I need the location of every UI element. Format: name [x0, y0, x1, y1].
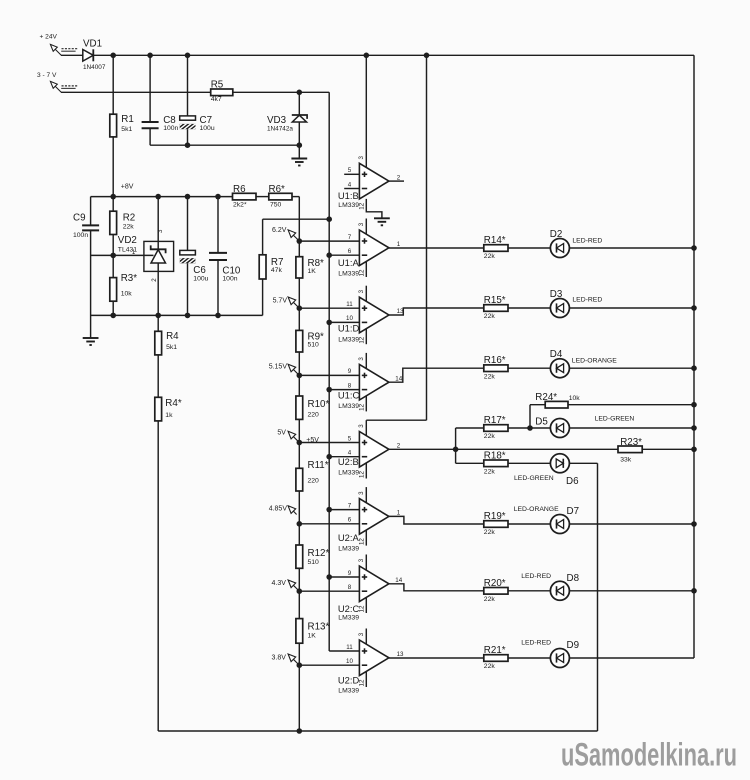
svg-text:R23*: R23* [620, 437, 642, 448]
svg-text:R4: R4 [166, 331, 179, 342]
svg-text:R5: R5 [211, 79, 224, 90]
svg-text:LED-GREEN: LED-GREEN [595, 416, 635, 423]
svg-text:6: 6 [348, 517, 352, 524]
svg-text:+ 24V: + 24V [40, 34, 58, 41]
svg-text:LM339: LM339 [338, 202, 359, 209]
svg-text:6: 6 [348, 248, 352, 255]
svg-text:R14*: R14* [484, 235, 506, 246]
svg-text:22k: 22k [484, 253, 496, 260]
svg-text:U2:C: U2:C [338, 603, 360, 614]
svg-text:D4: D4 [550, 349, 563, 360]
svg-text:33k: 33k [620, 456, 632, 463]
svg-text:1: 1 [397, 510, 401, 517]
svg-text:VD2: VD2 [118, 235, 137, 246]
svg-text:R9*: R9* [308, 331, 325, 342]
svg-text:R19*: R19* [484, 511, 506, 522]
svg-text:1: 1 [397, 241, 401, 248]
svg-text:22k: 22k [484, 529, 496, 536]
svg-text:5: 5 [348, 435, 352, 442]
svg-text:LED-ORANGE: LED-ORANGE [514, 506, 559, 513]
svg-text:LM339: LM339 [338, 687, 359, 694]
svg-text:12: 12 [359, 269, 366, 276]
svg-text:100n: 100n [73, 232, 88, 239]
svg-text:22k: 22k [484, 663, 496, 670]
svg-text:LM339: LM339 [338, 403, 359, 410]
svg-text:1k: 1k [165, 412, 173, 419]
svg-text:100u: 100u [193, 275, 208, 282]
svg-text:LED-RED: LED-RED [521, 640, 551, 647]
svg-text:+8V: +8V [121, 183, 134, 190]
svg-text:4.3V: 4.3V [271, 580, 286, 587]
svg-text:VD1: VD1 [83, 39, 102, 50]
svg-text:2k2*: 2k2* [233, 201, 247, 208]
svg-text:R3*: R3* [121, 273, 138, 284]
svg-text:LED-ORANGE: LED-ORANGE [572, 357, 617, 364]
svg-text:22k: 22k [123, 224, 135, 231]
svg-text:12: 12 [359, 336, 366, 343]
svg-text:1N4742a: 1N4742a [267, 126, 293, 133]
svg-text:7: 7 [348, 234, 352, 241]
svg-text:R6: R6 [233, 184, 246, 195]
svg-text:5.7V: 5.7V [273, 297, 288, 304]
svg-text:3: 3 [358, 289, 365, 293]
svg-text:LED-RED: LED-RED [521, 573, 551, 580]
svg-text:1: 1 [132, 249, 136, 256]
svg-text:R21*: R21* [484, 645, 506, 656]
svg-text:R11*: R11* [308, 460, 329, 471]
svg-text:5.15V: 5.15V [269, 364, 288, 371]
svg-text:LED-RED: LED-RED [572, 297, 602, 304]
svg-text:D2: D2 [550, 229, 563, 240]
svg-text:750: 750 [270, 201, 282, 208]
svg-text:C9: C9 [73, 212, 86, 223]
svg-text:5k1: 5k1 [166, 344, 177, 351]
svg-text:U1:B: U1:B [338, 190, 359, 201]
svg-text:510: 510 [308, 559, 320, 566]
svg-text:uSamodelkina.ru: uSamodelkina.ru [561, 737, 737, 773]
svg-text:R15*: R15* [484, 295, 506, 306]
svg-text:220: 220 [308, 477, 320, 484]
svg-text:8: 8 [348, 382, 352, 389]
svg-text:LM339: LM339 [338, 615, 359, 622]
svg-text:D3: D3 [550, 289, 563, 300]
svg-text:LM339: LM339 [338, 270, 359, 277]
svg-text:3: 3 [358, 424, 365, 428]
svg-text:4k7: 4k7 [211, 96, 222, 103]
svg-text:12: 12 [359, 471, 366, 478]
svg-text:R1: R1 [121, 114, 134, 125]
svg-text:100n: 100n [222, 275, 237, 282]
svg-text:12: 12 [359, 202, 366, 209]
svg-text:D5: D5 [535, 417, 548, 428]
svg-text:R2: R2 [123, 212, 136, 223]
svg-text:10: 10 [346, 315, 353, 322]
svg-text:U2:A: U2:A [338, 532, 360, 543]
svg-text:510: 510 [308, 342, 320, 349]
svg-text:2: 2 [397, 174, 401, 181]
svg-text:D8: D8 [567, 573, 580, 584]
svg-text:3: 3 [358, 156, 365, 160]
svg-text:9: 9 [348, 570, 352, 577]
svg-text:5k1: 5k1 [121, 126, 132, 133]
svg-text:R10*: R10* [308, 399, 330, 410]
svg-text:3.8V: 3.8V [271, 654, 286, 661]
svg-text:22k: 22k [484, 596, 496, 603]
svg-text:4: 4 [348, 181, 352, 188]
svg-text:100n: 100n [163, 125, 178, 132]
svg-text:R24*: R24* [535, 392, 557, 403]
svg-text:U1:C: U1:C [338, 390, 360, 401]
svg-text:R4*: R4* [165, 398, 182, 409]
svg-text:11: 11 [346, 301, 353, 308]
svg-text:R12*: R12* [308, 548, 330, 559]
svg-text:R20*: R20* [484, 578, 506, 589]
svg-text:U2:D: U2:D [338, 675, 360, 686]
svg-text:11: 11 [346, 644, 353, 651]
svg-text:LED-RED: LED-RED [572, 238, 602, 245]
svg-text:3: 3 [358, 632, 365, 636]
svg-text:13: 13 [397, 651, 404, 658]
svg-text:LM339: LM339 [338, 337, 359, 344]
svg-text:10k: 10k [569, 395, 581, 402]
svg-text:R6*: R6* [269, 184, 286, 195]
svg-text:R16*: R16* [484, 355, 506, 366]
svg-text:22k: 22k [484, 373, 496, 380]
svg-text:4.85V: 4.85V [269, 506, 288, 513]
svg-text:14: 14 [395, 577, 402, 584]
svg-text:3: 3 [358, 558, 365, 562]
svg-text:D7: D7 [567, 506, 580, 517]
svg-text:12: 12 [359, 538, 366, 545]
svg-text:47k: 47k [271, 267, 283, 274]
svg-text:3: 3 [358, 222, 365, 226]
svg-text:VD3: VD3 [267, 115, 287, 126]
svg-text:10k: 10k [121, 291, 133, 298]
svg-text:22k: 22k [484, 433, 496, 440]
svg-text:1K: 1K [308, 632, 317, 639]
svg-text:3: 3 [157, 229, 164, 233]
svg-text:2: 2 [397, 443, 401, 450]
svg-text:100u: 100u [200, 125, 215, 132]
svg-text:U1:D: U1:D [338, 323, 360, 334]
svg-text:U1:A: U1:A [338, 257, 360, 268]
svg-text:7: 7 [348, 502, 352, 509]
svg-text:LM339: LM339 [338, 469, 359, 476]
svg-text:22k: 22k [484, 313, 496, 320]
svg-text:2: 2 [151, 278, 158, 282]
svg-text:R13*: R13* [308, 621, 330, 632]
svg-text:3: 3 [358, 357, 365, 361]
svg-text:R17*: R17* [484, 415, 506, 426]
svg-text:22k: 22k [484, 469, 496, 476]
svg-text:D6: D6 [566, 476, 579, 487]
svg-text:12: 12 [359, 403, 366, 410]
svg-text:5V: 5V [277, 430, 286, 437]
svg-text:220: 220 [308, 412, 320, 419]
svg-text:10: 10 [346, 658, 353, 665]
svg-text:5: 5 [348, 167, 352, 174]
svg-text:8: 8 [348, 584, 352, 591]
svg-text:3: 3 [358, 491, 365, 495]
svg-text:LED-GREEN: LED-GREEN [514, 475, 554, 482]
svg-text:14: 14 [395, 375, 402, 382]
svg-text:1K: 1K [308, 268, 317, 275]
svg-text:12: 12 [359, 605, 366, 612]
svg-text:D9: D9 [567, 640, 580, 651]
svg-text:9: 9 [348, 368, 352, 375]
svg-text:R18*: R18* [484, 450, 506, 461]
svg-text:3 - 7 V: 3 - 7 V [37, 72, 57, 79]
svg-text:LM339: LM339 [338, 546, 359, 553]
svg-text:U2:B: U2:B [338, 456, 359, 467]
svg-text:13: 13 [397, 308, 404, 315]
svg-text:+5V: +5V [306, 437, 319, 444]
svg-text:6.2V: 6.2V [272, 227, 287, 234]
svg-text:12: 12 [359, 679, 366, 686]
svg-text:1N4007: 1N4007 [83, 64, 106, 71]
